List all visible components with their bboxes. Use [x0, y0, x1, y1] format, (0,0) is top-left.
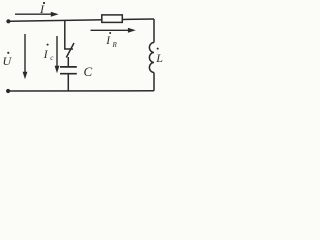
- svg-text:L: L: [155, 51, 163, 65]
- svg-text:C: C: [84, 64, 93, 79]
- svg-text:U: U: [3, 54, 13, 68]
- svg-text:R: R: [112, 41, 118, 49]
